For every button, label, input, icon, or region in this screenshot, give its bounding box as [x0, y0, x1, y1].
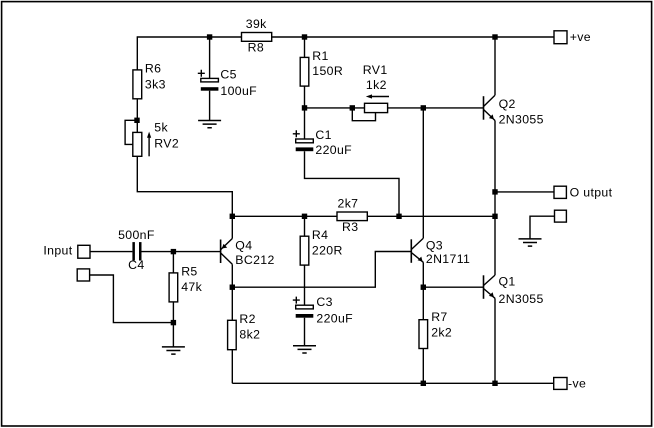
svg-text:C3: C3 [316, 295, 332, 309]
svg-text:O utput: O utput [570, 186, 613, 200]
node R5 top [171, 249, 176, 254]
wire +ve rail [138, 36, 555, 38]
resistor R2 [228, 312, 261, 349]
node R1 top [302, 34, 307, 39]
node C1 branch [396, 214, 401, 219]
svg-text:220uF: 220uF [316, 311, 353, 325]
wire R3 row right [367, 215, 495, 217]
wire C1 bottom to R3 node [305, 151, 400, 216]
wire left column top [136, 36, 138, 70]
svg-text:Q3: Q3 [426, 238, 443, 252]
wire C5 to ground [209, 91, 211, 121]
svg-text:220uF: 220uF [315, 143, 352, 157]
transistor Q1 [484, 275, 544, 307]
resistor R1 [300, 49, 343, 86]
node output [492, 189, 497, 194]
wire C5 top lead [209, 37, 211, 78]
wire RV1 to Q2 base [388, 107, 484, 109]
node Q2 base / Q3 collector [421, 105, 426, 110]
svg-text:R5: R5 [181, 265, 197, 279]
wire R7 bottom lead [422, 349, 424, 384]
svg-text:220R: 220R [312, 244, 343, 258]
resistor R3 [337, 197, 367, 234]
ground below C5 [198, 121, 221, 128]
terminal ground square [555, 210, 567, 222]
svg-text:1k2: 1k2 [366, 78, 387, 92]
resistor R7 [419, 310, 452, 348]
svg-text:39k: 39k [246, 17, 267, 31]
wire R4 to C3 [304, 265, 306, 305]
capacitor C3 [293, 295, 353, 326]
transistor Q3 [411, 238, 470, 266]
wire -ve rail [232, 382, 553, 384]
wire R4 top lead [304, 216, 306, 236]
wire Q4 collector to Q3 base [232, 252, 411, 288]
wire R2 bottom lead [231, 350, 233, 384]
terminal input return [77, 269, 89, 281]
svg-text:47k: 47k [181, 280, 202, 294]
svg-text:R8: R8 [248, 41, 264, 55]
terminal Input [43, 243, 90, 258]
svg-text:R2: R2 [239, 312, 255, 326]
svg-text:100uF: 100uF [220, 84, 257, 98]
node RV1 left [350, 105, 355, 110]
node R4 top [302, 214, 307, 219]
svg-text:5k: 5k [154, 120, 168, 134]
ground below C3 [293, 346, 316, 353]
wire Q4 emitter up [231, 216, 233, 238]
svg-text:R4: R4 [312, 228, 328, 242]
node Q3 emitter [421, 285, 426, 290]
wire ground square to ground [530, 216, 555, 239]
wire RV2 wiper to node [137, 156, 232, 216]
node Q1 emitter bottom [492, 381, 497, 386]
wire Q1 emitter down [494, 298, 496, 383]
svg-text:2k7: 2k7 [338, 197, 359, 211]
resistor R6 [133, 62, 166, 99]
svg-text:Q2: Q2 [499, 97, 516, 111]
svg-text:2N3055: 2N3055 [499, 112, 544, 126]
svg-text:+ve: +ve [570, 30, 591, 44]
svg-text:8k2: 8k2 [239, 328, 260, 342]
svg-text:R7: R7 [431, 310, 447, 324]
potentiometer RV1 [352, 63, 389, 121]
ground near output [519, 239, 542, 246]
wire R7 top lead [422, 287, 424, 320]
resistor R4 [300, 228, 343, 265]
terminal +ve [554, 30, 591, 44]
svg-text:C1: C1 [315, 128, 331, 142]
capacitor C5 [198, 68, 257, 98]
wire R5 bottom lead [172, 302, 174, 347]
svg-text:R6: R6 [145, 62, 161, 76]
wire output row [495, 191, 554, 193]
wire main vertical Q2-Q1 [494, 192, 496, 275]
wire R6 to RV2 [136, 99, 138, 133]
wire Q3 emitter down [422, 262, 424, 287]
transistor Q2 [484, 95, 544, 126]
node RV2 top junction [134, 118, 139, 123]
terminal Output [554, 186, 613, 200]
ground below R5 [162, 347, 185, 354]
svg-text:BC212: BC212 [235, 253, 274, 267]
capacitor C4 [118, 228, 155, 272]
wire Q3 emitter to Q1 base [423, 286, 483, 288]
svg-text:Q1: Q1 [499, 275, 516, 289]
svg-text:2N3055: 2N3055 [499, 292, 544, 306]
wire Q4 collector down [231, 264, 233, 287]
node C5 top [207, 34, 212, 39]
svg-text:RV2: RV2 [154, 137, 179, 151]
wire RV1 row [305, 107, 365, 109]
svg-text:R3: R3 [342, 220, 358, 234]
node R7 bottom [421, 381, 426, 386]
capacitor C1 [293, 128, 352, 157]
svg-text:R1: R1 [312, 49, 328, 63]
node RV1 row left [302, 105, 307, 110]
svg-text:RV1: RV1 [363, 63, 388, 77]
transistor Q4 [221, 238, 275, 267]
resistor R5 [169, 265, 202, 302]
svg-text:3k3: 3k3 [145, 77, 166, 91]
svg-text:150R: 150R [312, 64, 343, 78]
wire Q2 emitter to output node [494, 121, 496, 192]
svg-text:-ve: -ve [568, 376, 586, 390]
node Q4 emitter top [230, 214, 235, 219]
wire Q2 collector from rail [494, 37, 496, 95]
terminal -ve [554, 376, 586, 390]
wire R1 to C1 [304, 86, 306, 139]
wire R2 top lead [231, 287, 233, 320]
node Q4 collector [230, 285, 235, 290]
node main vertical R3 row [492, 214, 497, 219]
svg-text:C4: C4 [128, 258, 144, 272]
wire R5 top lead [172, 252, 174, 273]
svg-text:Q4: Q4 [235, 238, 252, 252]
wire C4 to Q4 base [142, 251, 221, 253]
svg-text:2k2: 2k2 [431, 326, 452, 340]
node R5 bottom [171, 320, 176, 325]
resistor R8 [242, 17, 272, 55]
wire Q3 collector up [422, 108, 424, 238]
wire C3 to ground [304, 318, 306, 346]
node +ve rail Q2 tap [492, 34, 497, 39]
wire input return to R5 bottom [90, 275, 174, 323]
svg-text:C5: C5 [220, 68, 236, 82]
wire input to C4 [90, 251, 132, 253]
wire R1 top lead [304, 37, 306, 57]
svg-text:2N1711: 2N1711 [426, 252, 470, 266]
svg-text:500nF: 500nF [118, 228, 155, 242]
potentiometer RV2 [125, 120, 179, 156]
svg-text:Input: Input [43, 243, 72, 257]
wire R3 row left [232, 215, 337, 217]
